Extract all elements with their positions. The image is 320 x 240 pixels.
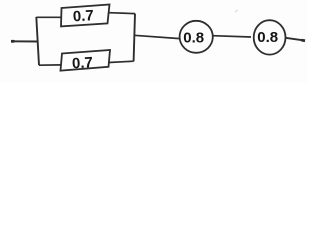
svg-text:0.7: 0.7 [72, 7, 94, 25]
svg-text:0.8: 0.8 [257, 29, 278, 46]
svg-text:0.7: 0.7 [72, 54, 94, 72]
svg-text:0.8: 0.8 [183, 29, 204, 46]
